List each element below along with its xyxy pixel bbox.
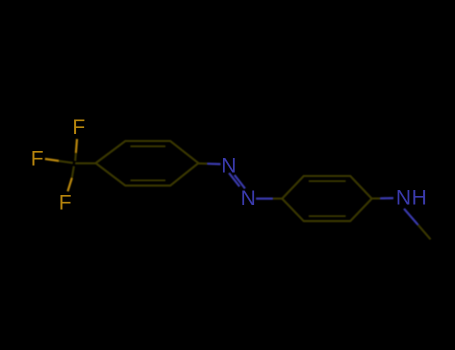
blue nitrogen bonds [208, 164, 418, 225]
svg-text:F: F [31, 148, 44, 171]
bond C to F left (gold half) [45, 159, 59, 161]
svg-text:N: N [241, 187, 256, 210]
svg-text:N: N [396, 187, 411, 210]
ring1 inner double bond bottom [130, 179, 165, 181]
svg-text:F: F [72, 116, 85, 139]
svg-text:H: H [412, 187, 427, 210]
bond CF3 C to ring1 [75, 162, 96, 164]
ring2 inner double bond bottom [309, 215, 346, 217]
bond C to F bottom (gold half) [68, 178, 72, 191]
azo N=N double bond line 2 [235, 175, 246, 189]
olive half of N-methyl bond [418, 225, 431, 240]
blue half of N-methyl bond [404, 209, 418, 225]
gold fluorine bonds [45, 139, 77, 191]
blue half of bond N2 to ring2 [256, 198, 273, 200]
svg-text:N: N [221, 154, 236, 177]
olive half of bond ring2 to NH [372, 197, 381, 199]
benzene ring 1 [96, 141, 199, 186]
benzene ring 2 [282, 176, 372, 221]
blue half of bond ring1 to N1 [208, 163, 221, 166]
olive carbon skeleton [59, 141, 431, 239]
svg-text:F: F [59, 192, 72, 215]
blue half of bond ring2 to NH [381, 197, 394, 199]
olive halves of C-F bonds [74, 153, 77, 161]
olive half of bond ring1 to N1 [198, 162, 207, 164]
ring1 inner double bond top [130, 145, 165, 147]
atom labels [31, 116, 427, 215]
ring2 inner double bond top [309, 180, 346, 182]
azo N=N double bond line 1 [229, 173, 240, 187]
olive half of bond N2 to ring2 [273, 198, 283, 200]
bond C to F top (gold half) [76, 139, 77, 153]
